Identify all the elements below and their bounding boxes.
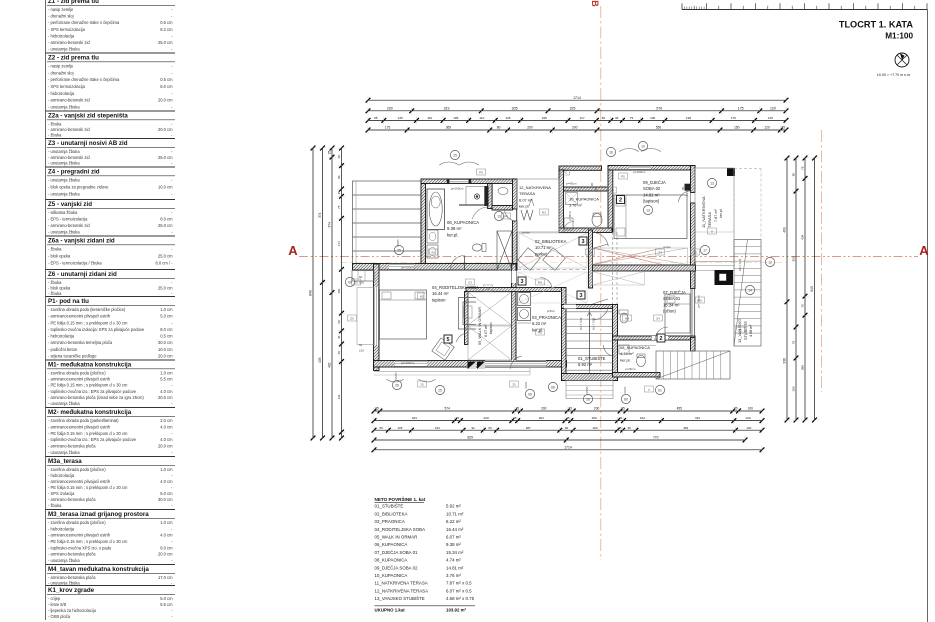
svg-text:110: 110: [479, 116, 484, 120]
svg-text:319: 319: [444, 106, 450, 110]
svg-text:25.0 cm: 25.0 cm: [158, 40, 173, 45]
svg-text:60: 60: [628, 426, 632, 430]
svg-text:60: 60: [337, 155, 341, 159]
svg-text:92: 92: [472, 426, 476, 430]
svg-text:95/95: 95/95: [585, 386, 589, 393]
svg-text:M4_tavan međukatna konstrukcij: M4_tavan međukatna konstrukcija: [48, 566, 149, 573]
svg-text:p=100cm: p=100cm: [633, 170, 646, 174]
svg-text:Z2a - vanjski zid stepeništa: Z2a - vanjski zid stepeništa: [48, 113, 128, 120]
svg-text:P5: P5: [563, 170, 567, 174]
svg-text:175: 175: [738, 106, 744, 110]
svg-text:02_BIBLIOTEKA: 02_BIBLIOTEKA: [375, 511, 408, 516]
svg-text:p=45cm: p=45cm: [625, 367, 636, 371]
svg-text:Z1 - zid prema tlu: Z1 - zid prema tlu: [48, 0, 99, 5]
svg-text:06_KUPAONICA: 06_KUPAONICA: [375, 542, 408, 547]
svg-text:- unutarnja žbuka: - unutarnja žbuka: [48, 191, 80, 196]
svg-text:M2: M2: [420, 294, 424, 298]
svg-text:829: 829: [467, 436, 473, 440]
svg-text:80: 80: [792, 173, 796, 177]
svg-text:0.5 cm: 0.5 cm: [160, 334, 173, 339]
svg-text:3.76 m²: 3.76 m²: [569, 204, 583, 208]
svg-text:NETO POVRŠINE 1. kat: NETO POVRŠINE 1. kat: [375, 495, 426, 502]
svg-text:10: 10: [641, 144, 645, 148]
svg-text:6.07 m²: 6.07 m²: [446, 535, 461, 540]
svg-text:13: 13: [497, 214, 501, 218]
svg-text:P4: P4: [504, 214, 508, 218]
svg-text:01_STUBIŠTE: 01_STUBIŠTE: [578, 356, 606, 361]
svg-text:11_NATKRIVENA TERASA: 11_NATKRIVENA TERASA: [375, 581, 428, 586]
svg-text:25.0 cm: 25.0 cm: [158, 253, 173, 258]
svg-text:(p=100cm: (p=100cm: [401, 361, 415, 365]
svg-text:TERASA: TERASA: [519, 191, 535, 196]
svg-text:- letve 5/8: - letve 5/8: [48, 602, 67, 607]
svg-text:- toplinsko-zvučna izo.: EPS z: - toplinsko-zvučna izo.: EPS za plivajuć…: [48, 389, 137, 394]
svg-text:20.0 cm: 20.0 cm: [158, 98, 173, 103]
svg-text:26: 26: [586, 397, 590, 401]
svg-text:95/95: 95/95: [396, 239, 400, 246]
svg-text:06: 06: [528, 392, 532, 396]
svg-text:- nasip zemlje: - nasip zemlje: [48, 7, 74, 12]
svg-text:25: 25: [420, 382, 424, 386]
svg-text:26: 26: [395, 383, 399, 387]
svg-text:287: 287: [526, 426, 531, 430]
svg-text:- PE folija 0.15 mm ; s preklo: - PE folija 0.15 mm ; s preklopom d ≥ 30…: [48, 383, 128, 388]
svg-text:95/95: 95/95: [394, 372, 398, 379]
svg-text:434: 434: [801, 234, 805, 239]
svg-text:M3a_terasa: M3a_terasa: [48, 458, 82, 465]
svg-text:4.74 m²: 4.74 m²: [620, 351, 634, 356]
svg-text:25: 25: [456, 416, 460, 420]
svg-text:60: 60: [624, 397, 628, 401]
svg-text:08_KUPAONICA: 08_KUPAONICA: [620, 345, 650, 350]
svg-text:117: 117: [580, 116, 585, 120]
svg-text:- žbuka: - žbuka: [48, 503, 62, 508]
svg-text:45: 45: [337, 335, 341, 339]
svg-text:P1- pod na tlu: P1- pod na tlu: [48, 298, 89, 305]
svg-text:60: 60: [337, 320, 341, 324]
svg-text:02_BIBLIOTEKA: 02_BIBLIOTEKA: [535, 239, 567, 244]
svg-text:1.0 cm: 1.0 cm: [160, 520, 173, 525]
svg-text:P5: P5: [621, 174, 625, 178]
svg-text:- XPS termoizolacija: - XPS termoizolacija: [48, 84, 86, 89]
svg-text:- unutarnja žbuka: - unutarnja žbuka: [48, 105, 80, 110]
svg-text:574: 574: [445, 407, 451, 411]
svg-text:- crijep: - crijep: [48, 596, 61, 601]
svg-text:103.92 m²: 103.92 m²: [446, 608, 467, 613]
svg-text:STUBIŠTE: STUBIŠTE: [743, 321, 748, 340]
svg-text:- toplinsko-zvučna izolacija:: - toplinsko-zvučna izolacija: EPS za pli…: [48, 327, 145, 332]
svg-text:- unutarnja žbuka: - unutarnja žbuka: [48, 450, 80, 455]
svg-text:25: 25: [781, 126, 785, 130]
svg-text:60: 60: [348, 280, 352, 284]
svg-text:344: 344: [412, 416, 417, 420]
svg-text:215: 215: [359, 349, 364, 353]
svg-text:150: 150: [337, 288, 341, 293]
svg-text:10.0 cm: 10.0 cm: [158, 347, 173, 352]
svg-text:ker.pl.: ker.pl.: [519, 204, 530, 209]
svg-text:p=45cm: p=45cm: [566, 182, 577, 186]
svg-text:0.5 cm: 0.5 cm: [160, 77, 173, 82]
svg-text:75: 75: [801, 166, 805, 170]
svg-text:409: 409: [783, 227, 787, 233]
svg-text:105: 105: [505, 116, 510, 120]
svg-text:61: 61: [658, 388, 662, 392]
svg-text:- drenažni sloj: - drenažni sloj: [48, 14, 74, 19]
svg-text:12: 12: [768, 260, 772, 264]
svg-text:20.0 cm: 20.0 cm: [158, 354, 173, 359]
svg-text:374: 374: [318, 212, 322, 218]
svg-text:(tapison): (tapison): [643, 199, 660, 204]
svg-text:13: 13: [646, 208, 650, 212]
svg-text:2: 2: [619, 198, 622, 204]
svg-text:162: 162: [640, 416, 645, 420]
svg-text:25: 25: [618, 426, 622, 430]
svg-text:6.22 m²: 6.22 m²: [446, 519, 461, 524]
svg-text:14.81 m²: 14.81 m²: [446, 565, 464, 570]
svg-text:20.0 cm: 20.0 cm: [158, 552, 173, 557]
svg-text:0.5 cm: 0.5 cm: [160, 20, 173, 25]
svg-text:- EPS - termoizolacija: - EPS - termoizolacija: [48, 217, 88, 222]
svg-text:4.0 cm: 4.0 cm: [160, 533, 173, 538]
svg-text:17.0 cm: 17.0 cm: [158, 575, 173, 580]
svg-text:14.81 m²: 14.81 m²: [643, 192, 660, 197]
svg-text:- blok opeka: - blok opeka: [48, 285, 71, 290]
svg-text:10.0 cm: 10.0 cm: [158, 184, 173, 189]
svg-text:8.0 cm: 8.0 cm: [160, 217, 173, 222]
svg-text:8x17,7/29: 8x17,7/29: [579, 317, 583, 330]
svg-text:4.0 cm: 4.0 cm: [160, 479, 173, 484]
svg-text:05_WALK IN ORMAR: 05_WALK IN ORMAR: [477, 307, 482, 345]
svg-text:25: 25: [453, 153, 457, 157]
svg-text:175: 175: [731, 116, 736, 120]
svg-text:- hidroizolacija: - hidroizolacija: [48, 334, 75, 339]
svg-text:P5: P5: [479, 170, 483, 174]
svg-text:±0.00 = +7.70 m n.m.: ±0.00 = +7.70 m n.m.: [877, 73, 911, 77]
svg-text:- unutarnja žbuka: - unutarnja žbuka: [48, 47, 80, 52]
svg-text:80: 80: [337, 175, 341, 179]
svg-text:- armirano-betonska ploča: - armirano-betonska ploča: [48, 575, 96, 580]
svg-text:12_NATKRIVENA TERASA: 12_NATKRIVENA TERASA: [375, 588, 429, 593]
svg-text:200: 200: [593, 426, 598, 430]
svg-text:A: A: [288, 243, 298, 258]
svg-text:5: 5: [447, 337, 450, 343]
svg-text:04_RODITELJSKA SOBA: 04_RODITELJSKA SOBA: [375, 527, 426, 532]
svg-text:- armiranocementni plivajući e: - armiranocementni plivajući estrih: [48, 424, 111, 429]
svg-text:Z5: Z5: [738, 328, 742, 332]
svg-text:570: 570: [656, 106, 662, 110]
svg-text:200: 200: [387, 106, 393, 110]
svg-text:110: 110: [427, 116, 432, 120]
svg-text:- završna obrada poda (pločice: - završna obrada poda (pločice): [48, 467, 106, 472]
svg-text:3: 3: [582, 239, 585, 245]
svg-text:13_VANJSKO STUBIŠTE: 13_VANJSKO STUBIŠTE: [375, 596, 425, 601]
svg-text:3: 3: [580, 293, 583, 299]
svg-text:60/21: 60/21: [524, 381, 528, 388]
svg-text:- OSB ploča: - OSB ploča: [48, 614, 71, 619]
svg-text:175: 175: [385, 126, 391, 130]
svg-text:- blok opeka: - blok opeka: [48, 253, 71, 258]
svg-text:5.92 m²: 5.92 m²: [446, 504, 461, 509]
svg-text:11_NATKRIVENA: 11_NATKRIVENA: [701, 196, 706, 228]
svg-text:9.38 m²: 9.38 m²: [447, 226, 462, 231]
svg-text:200: 200: [594, 407, 600, 411]
svg-text:- unutarnja žbuka: - unutarnja žbuka: [48, 230, 80, 235]
svg-text:B: B: [590, 0, 600, 7]
svg-text:6.07 m²: 6.07 m²: [519, 197, 533, 202]
svg-text:ker.pl.: ker.pl.: [620, 357, 631, 362]
svg-text:- završna obrada poda (parket/: - završna obrada poda (parket/laminat): [48, 418, 119, 423]
svg-text:M2: M2: [588, 250, 592, 254]
svg-text:- žbuka: - žbuka: [48, 122, 62, 127]
svg-text:Z5: Z5: [693, 250, 697, 254]
svg-text:6.22 m²: 6.22 m²: [532, 321, 547, 326]
svg-text:04_RODITELJSKI SOBA: 04_RODITELJSKI SOBA: [432, 285, 479, 290]
svg-text:4.0 cm: 4.0 cm: [160, 424, 173, 429]
svg-text:120: 120: [745, 416, 750, 420]
svg-text:SOBA 01: SOBA 01: [663, 296, 681, 301]
svg-text:25.0 cm: 25.0 cm: [158, 223, 173, 228]
svg-text:07_DJEČJA: 07_DJEČJA: [663, 290, 686, 295]
svg-text:ker.pl.: ker.pl.: [719, 208, 723, 218]
svg-text:A: A: [919, 243, 929, 258]
svg-text:200: 200: [572, 126, 578, 130]
svg-text:Z3 - unutarnji nosivi AB zid: Z3 - unutarnji nosivi AB zid: [48, 140, 128, 147]
svg-text:tapison: tapison: [489, 322, 493, 334]
svg-text:195: 195: [686, 116, 691, 120]
svg-text:25: 25: [397, 248, 401, 252]
svg-text:- podložni beton: - podložni beton: [48, 347, 78, 352]
svg-text:25: 25: [328, 151, 332, 155]
svg-text:- drenažni sloj: - drenažni sloj: [48, 70, 74, 75]
svg-text:5.5 cm: 5.5 cm: [160, 377, 173, 382]
svg-text:P5: P5: [698, 298, 702, 302]
svg-text:336: 336: [783, 358, 787, 364]
svg-text:75: 75: [337, 205, 341, 209]
svg-text:2: 2: [660, 336, 663, 342]
svg-text:80: 80: [497, 126, 501, 130]
svg-text:8x17,7/29: 8x17,7/29: [738, 258, 742, 271]
svg-text:8.0 cm: 8.0 cm: [160, 545, 173, 550]
svg-text:09_DJEČJA SOBA 02: 09_DJEČJA SOBA 02: [375, 565, 419, 570]
svg-text:- armirano-betonska ploča (izn: - armirano-betonska ploča (iznad sebe za…: [48, 395, 144, 400]
svg-text:215: 215: [685, 191, 689, 196]
svg-text:- XPS termoizolacija: - XPS termoizolacija: [48, 27, 86, 32]
svg-text:174: 174: [337, 241, 341, 246]
svg-text:6.07 m²: 6.07 m²: [484, 324, 488, 337]
svg-text:- PE folija 0.15 mm ; s preklo: - PE folija 0.15 mm ; s preklopom d ≥ 30…: [48, 320, 128, 325]
svg-text:UKUPNO 1.kat: UKUPNO 1.kat: [375, 608, 406, 613]
svg-text:30.0 cm: 30.0 cm: [158, 497, 173, 502]
svg-text:135: 135: [398, 116, 403, 120]
svg-text:1.0 cm: 1.0 cm: [160, 467, 173, 472]
svg-text:150: 150: [734, 126, 740, 130]
svg-text:25: 25: [619, 416, 623, 420]
svg-text:06_KUPAONICA: 06_KUPAONICA: [447, 220, 479, 225]
svg-text:16.44 m²: 16.44 m²: [432, 291, 449, 296]
svg-text:TERASA: TERASA: [707, 212, 712, 228]
svg-text:- ljepenka za hidroizolaciju: - ljepenka za hidroizolaciju: [48, 608, 96, 613]
svg-text:- žbuka: - žbuka: [48, 132, 62, 137]
svg-text:1.0 cm: 1.0 cm: [160, 307, 173, 312]
svg-text:M1:100: M1:100: [885, 32, 913, 41]
svg-text:- završna obrada poda (pločice: - završna obrada poda (pločice): [48, 520, 106, 525]
svg-text:tapison: tapison: [432, 297, 446, 302]
svg-text:- armirano-betonska ploča: - armirano-betonska ploča: [48, 552, 96, 557]
svg-text:Z6a - vanjski zidani zid: Z6a - vanjski zidani zid: [48, 238, 115, 245]
svg-text:- unutarnja žbuka: - unutarnja žbuka: [48, 558, 80, 563]
svg-text:- žbuka: - žbuka: [48, 280, 62, 285]
svg-text:- unutarnja žbuka: - unutarnja žbuka: [48, 580, 80, 585]
svg-text:25: 25: [438, 388, 442, 392]
svg-text:- hidroizolacija: - hidroizolacija: [48, 473, 75, 478]
svg-text:TLOCRT 1. KATA: TLOCRT 1. KATA: [839, 20, 914, 30]
svg-text:- armirano-betonski zid: - armirano-betonski zid: [48, 223, 90, 228]
svg-text:1714: 1714: [564, 445, 572, 449]
svg-text:Z5: Z5: [431, 250, 435, 254]
svg-text:prošm: prošm: [522, 231, 531, 235]
svg-text:10.71 m²: 10.71 m²: [446, 511, 464, 516]
svg-text:60: 60: [359, 275, 363, 279]
svg-text:M1: M1: [542, 210, 546, 214]
svg-text:374: 374: [328, 222, 332, 228]
svg-text:pr5cm: pr5cm: [547, 309, 556, 313]
svg-text:- nasip zemlje: - nasip zemlje: [48, 64, 74, 69]
svg-text:Z4: Z4: [610, 188, 614, 192]
svg-text:120: 120: [746, 426, 751, 430]
svg-text:48: 48: [615, 116, 619, 120]
svg-text:1.0 cm: 1.0 cm: [160, 371, 173, 376]
svg-text:25: 25: [337, 191, 341, 195]
svg-text:60: 60: [337, 351, 341, 355]
svg-text:75: 75: [630, 116, 634, 120]
svg-text:Z4 - pregradni zid: Z4 - pregradni zid: [48, 169, 100, 176]
svg-text:7.87 m² x 0.5: 7.87 m² x 0.5: [446, 581, 472, 586]
svg-text:p=45cm: p=45cm: [568, 210, 572, 221]
svg-text:- stijena tucaničke podloge: - stijena tucaničke podloge: [48, 354, 97, 359]
svg-text:- završna obrada poda (pločice: - završna obrada poda (pločice): [48, 371, 106, 376]
svg-text:940: 940: [810, 286, 814, 292]
svg-text:100: 100: [650, 116, 655, 120]
svg-text:195: 195: [542, 116, 547, 120]
svg-text:8.0 cm: 8.0 cm: [160, 327, 173, 332]
svg-text:225: 225: [570, 106, 576, 110]
svg-text:16: 16: [486, 286, 490, 290]
svg-text:Z6 - unutarnji zidani zid: Z6 - unutarnji zidani zid: [48, 271, 117, 278]
svg-text:3.76 m²: 3.76 m²: [446, 573, 461, 578]
svg-text:100: 100: [748, 407, 754, 411]
svg-text:- PE folija 0.15 mm ; s preklo: - PE folija 0.15 mm ; s preklopom d ≥ 30…: [48, 485, 128, 490]
svg-text:20.0 cm: 20.0 cm: [158, 395, 173, 400]
svg-text:- perforirane drenažne trake s: - perforirane drenažne trake s čepićima: [48, 20, 120, 25]
svg-text:10_KUPAONICA: 10_KUPAONICA: [375, 573, 408, 578]
svg-text:60: 60: [565, 426, 569, 430]
svg-text:60: 60: [488, 426, 492, 430]
svg-text:25: 25: [513, 416, 517, 420]
svg-text:105: 105: [397, 426, 402, 430]
svg-text:Z4: Z4: [656, 316, 660, 320]
svg-text:30.0 cm: 30.0 cm: [158, 340, 173, 345]
svg-text:Z3: Z3: [468, 280, 472, 284]
svg-text:- unutarnja žbuka: - unutarnja žbuka: [48, 178, 80, 183]
svg-text:12_NATKRIVENA: 12_NATKRIVENA: [519, 185, 551, 190]
svg-text:75: 75: [792, 341, 796, 345]
svg-text:2.0 cm: 2.0 cm: [160, 418, 173, 423]
svg-text:60/21: 60/21: [623, 386, 627, 393]
svg-text:- EPS - termoizolacija / žbuka: - EPS - termoizolacija / žbuka: [48, 260, 102, 265]
svg-text:215: 215: [594, 187, 598, 192]
svg-text:Z2 - zid prema tlu: Z2 - zid prema tlu: [48, 55, 99, 62]
svg-text:03_PRAONICA: 03_PRAONICA: [532, 315, 561, 320]
svg-text:25: 25: [375, 407, 379, 411]
svg-text:- XPS izolacija: - XPS izolacija: [48, 491, 75, 496]
svg-text:9.38 m²: 9.38 m²: [446, 542, 461, 547]
svg-text:65: 65: [374, 116, 378, 120]
svg-text:ker.pl.: ker.pl.: [447, 232, 458, 237]
svg-text:- unutarnja žbuka: - unutarnja žbuka: [48, 401, 80, 406]
svg-text:01_STUBIŠTE: 01_STUBIŠTE: [375, 504, 404, 509]
svg-text:4.74 m²: 4.74 m²: [446, 558, 461, 563]
svg-text:3: 3: [521, 279, 524, 285]
svg-text:- žbuka: - žbuka: [48, 247, 62, 252]
svg-text:234: 234: [435, 426, 440, 430]
svg-text:(učion): (učion): [663, 309, 676, 314]
svg-text:25: 25: [516, 407, 520, 411]
svg-text:20.0 cm: 20.0 cm: [158, 444, 173, 449]
svg-text:4.68 m² x 0.75: 4.68 m² x 0.75: [446, 596, 475, 601]
svg-text:14: 14: [748, 288, 752, 292]
svg-text:7.87 m²: 7.87 m²: [714, 208, 718, 222]
svg-text:105: 105: [453, 116, 458, 120]
svg-text:8x17,7/29: 8x17,7/29: [592, 317, 596, 330]
svg-text:09_DJEČJA: 09_DJEČJA: [643, 180, 666, 185]
svg-text:Z5 - vanjski zid: Z5 - vanjski zid: [48, 201, 92, 208]
svg-text:25: 25: [512, 382, 516, 386]
svg-text:5.92 m²: 5.92 m²: [578, 362, 593, 367]
svg-text:- armirano-betonski zid: - armirano-betonski zid: [48, 127, 90, 132]
svg-text:5.0 cm: 5.0 cm: [160, 596, 173, 601]
svg-text:20.0 cm: 20.0 cm: [158, 127, 173, 132]
svg-text:215: 215: [359, 281, 364, 285]
svg-text:25.0 cm: 25.0 cm: [158, 155, 173, 160]
svg-text:241: 241: [337, 394, 341, 399]
svg-text:- armiranocementni plivajući e: - armiranocementni plivajući estrih: [48, 377, 111, 382]
svg-text:25: 25: [568, 407, 572, 411]
svg-text:prošm: prošm: [663, 245, 672, 249]
svg-text:386: 386: [801, 365, 805, 370]
svg-text:- armiranocementni plivajući e: - armiranocementni plivajući estrih: [48, 314, 111, 319]
svg-text:07_DJEČJA SOBA 01: 07_DJEČJA SOBA 01: [375, 550, 419, 555]
svg-text:5.0 cm: 5.0 cm: [160, 314, 173, 319]
svg-text:80: 80: [681, 186, 685, 190]
svg-text:310: 310: [695, 416, 700, 420]
svg-text:13: 13: [710, 181, 714, 185]
svg-text:202: 202: [539, 416, 544, 420]
svg-text:M1: M1: [538, 280, 542, 284]
svg-text:- perforirane drenažne trake s: - perforirane drenažne trake s čepićima: [48, 77, 120, 82]
svg-text:25: 25: [621, 407, 625, 411]
svg-text:- toplinsko-zvučna izo.: EPS z: - toplinsko-zvučna izo.: EPS za plivajuć…: [48, 437, 137, 442]
svg-text:402: 402: [328, 362, 332, 368]
svg-text:200: 200: [592, 416, 597, 420]
svg-text:305: 305: [512, 106, 518, 110]
svg-text:08_KUPAONICA: 08_KUPAONICA: [375, 558, 408, 563]
svg-text:parket: parket: [535, 251, 547, 256]
svg-text:Z5: Z5: [350, 316, 354, 320]
svg-text:16.44 m²: 16.44 m²: [446, 527, 464, 532]
svg-text:M3_terasa iznad grijanog prost: M3_terasa iznad grijanog prostora: [48, 511, 149, 518]
svg-text:P5: P5: [538, 330, 542, 334]
svg-text:455: 455: [677, 407, 683, 411]
